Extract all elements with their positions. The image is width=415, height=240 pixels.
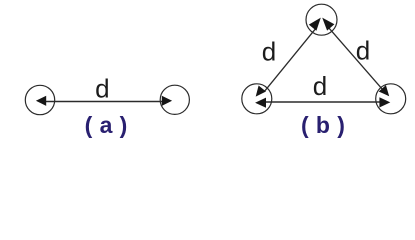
arrowhead at B-left end (pointing down-left) [256,86,266,97]
svg-text:( b ): ( b ) [301,112,345,138]
arrowhead right (into A2) [162,96,172,106]
arrowhead into B-right (pointing right) [379,97,390,107]
arrowhead at B-right end (pointing down-right) [379,85,390,96]
svg-text:d: d [356,35,370,65]
arrowhead left (into A1) [36,96,46,106]
wire: shaft B-left to B-top [265,27,317,91]
arrowhead into B-left (pointing left) [255,98,266,108]
arrowhead at B-top end (pointing up-right) [309,18,321,31]
node circle B-left (bottom left) [242,84,272,114]
node circle A2 (right) [160,85,189,114]
svg-text:d: d [313,71,327,101]
svg-text:( a ): ( a ) [85,112,128,138]
arrowhead at B-top end (pointing up-left) [322,18,334,31]
wire: shaft B-right to B-top [328,27,384,91]
svg-text:d: d [262,37,276,67]
svg-text:d: d [95,74,109,104]
wire: shaft B-left to B-right (horizontal) [266,101,380,103]
node circle B-top [306,4,337,35]
wire: shaft of double arrow A1-A2 [46,101,162,103]
node circle B-right (bottom right) [376,84,406,114]
node circle A1 (left) [25,85,54,114]
